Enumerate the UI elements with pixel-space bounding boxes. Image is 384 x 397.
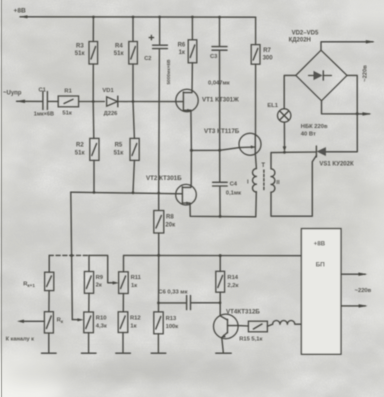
svg-text:51к: 51к bbox=[114, 150, 124, 156]
capacitor C3 bbox=[208, 17, 230, 87]
svg-text:НБК 220в: НБК 220в bbox=[301, 124, 328, 130]
node rail-C2 bbox=[158, 16, 161, 19]
wire base rail to R8 bbox=[158, 193, 160, 211]
svg-text:R4: R4 bbox=[115, 44, 123, 50]
wire R2 to base rail bbox=[93, 160, 95, 192]
block BP power supply bbox=[301, 229, 341, 355]
capacitor C2 electrolytic bbox=[144, 17, 171, 84]
svg-text:300: 300 bbox=[263, 56, 274, 62]
svg-text:C6 0,33 мк: C6 0,33 мк bbox=[158, 290, 187, 296]
arrow bottom AC terminal bbox=[362, 112, 371, 115]
node rail-C3 bbox=[218, 16, 221, 19]
transistor VT1 bbox=[176, 89, 239, 111]
transformer core and label T bbox=[261, 163, 265, 190]
svg-text:C3: C3 bbox=[210, 54, 218, 60]
node R2 bottom bbox=[93, 191, 96, 194]
capacitor C6 bbox=[158, 290, 220, 310]
resistor R2 bbox=[75, 138, 99, 160]
wire VT1 emitter down to node bbox=[190, 110, 193, 150]
node lamp-cathode junction bbox=[283, 151, 286, 154]
wire R6 to VT1 collector bbox=[191, 63, 193, 93]
wire Rk+1 top riser bbox=[48, 255, 50, 272]
wire rail corner to R7 bbox=[255, 17, 257, 44]
wire R9 to R10 bbox=[88, 293, 90, 312]
node C2/R8 column bbox=[157, 192, 160, 195]
capacitor C1 bbox=[34, 87, 54, 117]
node R4-column on input wire bbox=[132, 100, 135, 103]
wire winding I bottom (joined at VT2 emitter wire corner) bbox=[255, 191, 257, 193]
svg-text:51к: 51к bbox=[62, 111, 71, 117]
node rail-R6 bbox=[191, 16, 194, 19]
wire input node to R5 bbox=[133, 102, 134, 139]
arrow wiper into R10 bbox=[72, 319, 79, 321]
wire dashed selector line bbox=[49, 254, 89, 256]
svg-text:VD2–VD5: VD2–VD5 bbox=[292, 30, 319, 36]
wire Rk to ground bbox=[48, 333, 50, 352]
wire bridge bottom corner to output arrow bbox=[322, 101, 370, 114]
wire lamp down to cathode wire with arrow bbox=[283, 122, 285, 147]
svg-text:R13: R13 bbox=[166, 316, 177, 322]
wire selector line solid to elbow and wiper arrow into R11 bbox=[89, 255, 115, 282]
wire rail to R4 bbox=[132, 17, 134, 42]
wire R11 to R12 bbox=[122, 294, 124, 312]
svg-text:2к: 2к bbox=[96, 283, 102, 289]
arrow BP output top bbox=[358, 273, 367, 276]
resistor R12 bbox=[118, 312, 140, 333]
svg-text:VT3 КТ117Б: VT3 КТ117Б bbox=[204, 128, 240, 135]
wire input to C1 bbox=[17, 100, 43, 102]
capacitor C4 bbox=[213, 150, 242, 196]
svg-text:C2: C2 bbox=[144, 56, 151, 62]
resistor R14 bbox=[216, 271, 239, 292]
thyristor VS1 bbox=[316, 146, 354, 168]
wire Rk+1 to Rk bbox=[48, 291, 50, 312]
resistor R6 bbox=[178, 40, 197, 63]
svg-text:II: II bbox=[276, 180, 280, 186]
wire rail to R3 bbox=[92, 17, 94, 42]
svg-text:R6: R6 bbox=[178, 43, 186, 49]
svg-text:R8: R8 bbox=[166, 215, 174, 221]
resistor R3 bbox=[75, 42, 98, 65]
arrow lamp wire junction bbox=[283, 146, 287, 151]
inductor to BP bbox=[273, 321, 302, 325]
wire BP wire down to R14 bbox=[219, 256, 221, 272]
svg-text:T: T bbox=[261, 163, 265, 169]
resistor R9 bbox=[84, 272, 103, 294]
node R14 column on BP wire bbox=[219, 254, 222, 257]
svg-text:+8B: +8B bbox=[14, 8, 27, 15]
svg-text:R12: R12 bbox=[130, 315, 141, 321]
wire thyristor cathode to lamp junction bbox=[285, 151, 317, 153]
wire R7 down to VT3 base1 bbox=[255, 64, 257, 134]
ground VT4 bbox=[216, 352, 231, 354]
wire VT2 emitter to common bottom wire bbox=[190, 192, 256, 217]
resistor Rk bbox=[44, 312, 63, 333]
svg-text:20к: 20к bbox=[165, 223, 175, 229]
svg-text:EL1: EL1 bbox=[267, 103, 278, 109]
wire C1 to R1 bbox=[48, 100, 58, 102]
svg-text:Д226: Д226 bbox=[104, 111, 119, 117]
resistor R13 bbox=[154, 312, 178, 334]
wire R3 to input node bbox=[92, 64, 94, 102]
scan left-edge line bbox=[1, 0, 2, 397]
wire winding II bottom to thyristor gate bbox=[271, 155, 317, 216]
wire VT2-base-rail corner down the selector column bbox=[71, 192, 73, 319]
svg-text:VS1 КУ202К: VS1 КУ202К bbox=[319, 162, 354, 168]
wire R14 down to VT4 collector bbox=[219, 292, 221, 316]
wire R13 to ground bbox=[157, 334, 159, 353]
wire R4 to input node bbox=[132, 64, 134, 102]
svg-text:100к: 100к bbox=[166, 324, 179, 330]
svg-text:VT4КТ312Б: VT4КТ312Б bbox=[226, 309, 260, 316]
node crossing at bottom AC wire bbox=[356, 112, 359, 115]
diode VD1 bbox=[102, 88, 118, 117]
transistor VT4 bbox=[214, 309, 261, 339]
transistor VT3 unijunction bbox=[204, 128, 261, 155]
svg-text:Rк: Rк bbox=[57, 317, 64, 324]
svg-text:К каналу к: К каналу к bbox=[6, 336, 35, 342]
svg-text:51к: 51к bbox=[75, 51, 85, 57]
arrow input bbox=[16, 100, 25, 103]
svg-text:R14: R14 bbox=[227, 275, 238, 281]
svg-text:1к: 1к bbox=[179, 50, 185, 56]
svg-text:R7: R7 bbox=[263, 48, 271, 54]
resistor R10 bbox=[84, 312, 107, 333]
wire bridge top corner to output arrow bbox=[321, 42, 373, 50]
ground R12 bbox=[116, 352, 131, 354]
lamp EL1 bbox=[267, 103, 291, 122]
wire bridge right corner down to thyristor anode bbox=[326, 75, 358, 151]
node C6-R14-VT4 junction bbox=[219, 301, 222, 304]
svg-text:51к: 51к bbox=[75, 150, 85, 156]
wire VT3 base2 down to winding I bbox=[255, 153, 256, 169]
svg-text:1мк×6В: 1мк×6В bbox=[34, 112, 54, 118]
wire R9 top riser bbox=[88, 255, 90, 271]
svg-text:R10: R10 bbox=[96, 315, 107, 321]
svg-text:R11: R11 bbox=[131, 275, 142, 281]
node VT1e-VT2c-VT3 junction bbox=[190, 149, 193, 152]
wire C3 down to VT3 emitter node bbox=[219, 50, 221, 150]
wire VD1 to VT1 base bbox=[118, 101, 184, 103]
wire C4 to common bottom wire bbox=[219, 186, 221, 216]
wire R5 to base rail bbox=[133, 160, 134, 192]
arrow top AC terminal bbox=[366, 40, 375, 43]
wire VT2 base rail bbox=[71, 192, 183, 194]
svg-text:VD1: VD1 bbox=[102, 88, 114, 94]
svg-text:4,3к: 4,3к bbox=[96, 323, 107, 329]
svg-text:VT2 КТ301Б: VT2 КТ301Б bbox=[146, 175, 182, 182]
resistor R11 bbox=[119, 272, 142, 294]
svg-text:~220в: ~220в bbox=[363, 65, 369, 82]
svg-text:2,2к: 2,2к bbox=[227, 283, 238, 289]
node R3-column on input wire bbox=[92, 100, 95, 103]
wiper arrow of Rk to channel bbox=[22, 320, 45, 322]
node C3-C4 junction bbox=[218, 149, 221, 152]
svg-text:1к: 1к bbox=[130, 323, 136, 329]
ground R10 bbox=[81, 352, 96, 354]
ground R13 bbox=[151, 352, 166, 354]
node rail-R3 bbox=[92, 16, 95, 19]
svg-text:~220в: ~220в bbox=[355, 288, 372, 294]
node C6 left junction bbox=[157, 302, 160, 305]
resistor R8 bbox=[154, 211, 175, 234]
svg-text:R5: R5 bbox=[115, 143, 123, 149]
resistor R5 bbox=[114, 138, 140, 160]
wire VT4 emitter to ground bbox=[222, 338, 224, 353]
wire R1 to VD1 bbox=[79, 101, 105, 103]
wire R10 to ground bbox=[88, 333, 90, 353]
arrow supply rail left end bbox=[20, 15, 28, 18]
svg-text:+8B: +8B bbox=[314, 241, 326, 248]
resistor Rk+1 bbox=[23, 272, 54, 290]
resistor R4 bbox=[114, 42, 138, 65]
wire R13 column from BP wire to C6 node bbox=[158, 255, 160, 303]
wire VT2 collector up to node bbox=[190, 150, 193, 187]
wire top supply rail bbox=[20, 16, 256, 18]
ground Rk bbox=[42, 352, 57, 354]
svg-text:БП: БП bbox=[316, 261, 326, 268]
wire bridge left corner to lamp bbox=[284, 75, 296, 108]
node selector column on dashed line bbox=[70, 254, 73, 257]
svg-text:40 Вт: 40 Вт bbox=[301, 131, 316, 137]
bridge rectifier VD2-VD5 bbox=[289, 30, 347, 100]
svg-text:5000мк×6В: 5000мк×6В bbox=[166, 59, 171, 85]
svg-text:R9: R9 bbox=[96, 275, 104, 281]
resistor R1 bbox=[58, 89, 78, 117]
svg-text:VT1 КТ301Ж: VT1 КТ301Ж bbox=[202, 96, 239, 103]
node R5 bottom bbox=[132, 191, 135, 194]
wire VT3 base1 exits top (joined to R7 wire) bbox=[254, 135, 256, 136]
svg-text:R15 5,1к: R15 5,1к bbox=[239, 337, 262, 343]
svg-text:C1: C1 bbox=[39, 87, 47, 93]
resistor R15 bbox=[239, 321, 267, 342]
wire R12 to ground bbox=[122, 333, 124, 353]
svg-text:0,1мк: 0,1мк bbox=[226, 191, 241, 197]
wire node to VT3 emitter bbox=[191, 148, 239, 151]
node rail-R4 bbox=[132, 16, 135, 19]
node R8/R13 column on BP wire bbox=[157, 254, 160, 257]
wire BP output bottom bbox=[341, 305, 365, 307]
svg-text:51к: 51к bbox=[114, 51, 124, 57]
wire R15 to inductor bbox=[267, 324, 272, 326]
svg-text:1к: 1к bbox=[131, 283, 137, 289]
wire down to R13 bbox=[158, 303, 160, 312]
wire BP output top bbox=[341, 273, 365, 275]
transformer T winding II bbox=[271, 169, 280, 192]
wire R8 down to BP wire bbox=[158, 233, 160, 255]
wire R11 top riser to BP wire bbox=[124, 255, 302, 271]
wire C2 down to VT2 base rail bbox=[158, 49, 161, 193]
svg-text:R3: R3 bbox=[76, 44, 84, 50]
transistor VT2 bbox=[146, 175, 196, 205]
transformer T winding I bbox=[247, 169, 256, 192]
wire winding II top to thyristor cathode wire bbox=[271, 152, 285, 168]
svg-text:Rк+1: Rк+1 bbox=[23, 281, 35, 288]
svg-text:~Uупр: ~Uупр bbox=[3, 90, 22, 96]
resistor R7 bbox=[251, 45, 273, 65]
arrow BP output bottom bbox=[359, 304, 368, 307]
svg-text:R1: R1 bbox=[64, 89, 72, 95]
wire rail to R6 bbox=[191, 17, 193, 40]
svg-text:R2: R2 bbox=[76, 143, 84, 149]
wire input node to R2 bbox=[92, 102, 95, 139]
svg-text:C4: C4 bbox=[230, 182, 238, 188]
svg-text:КД202Н: КД202Н bbox=[289, 37, 311, 43]
wire VT4 base to R15 bbox=[238, 325, 248, 327]
node C4 on bottom wire bbox=[219, 215, 222, 218]
